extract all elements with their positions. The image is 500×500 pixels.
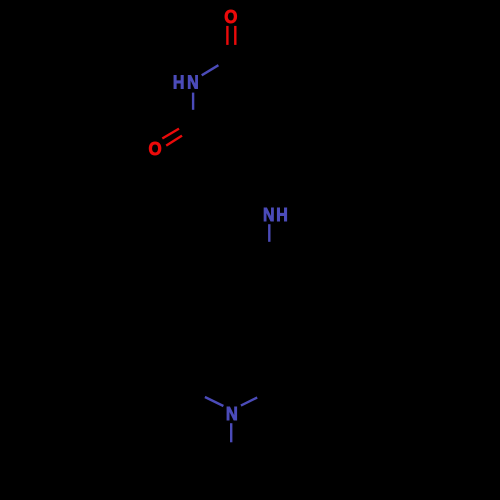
bond NH-CH2 (blue half) [268,224,270,242]
oxygen O (left carbonyl) label [149,138,162,159]
bond N-C ring up-right (blue half) [241,398,257,406]
secondary amine NH label [263,204,275,226]
svg-text:H: H [276,204,288,226]
svg-text:N: N [226,403,238,424]
double bond C2=O (red halves, two vertical lines) [226,26,228,45]
bond N1-C2 (blue half) [202,65,219,75]
svg-text:O: O [149,138,162,159]
svg-text:O: O [224,6,237,27]
svg-text:H: H [173,71,185,93]
piperidine nitrogen N label (bottom) [226,403,238,424]
bond N-CH3 down (blue half) [230,423,232,442]
bond N1-C6 (blue half) [192,93,194,110]
bond N-C ring up-left (blue half) [205,397,224,406]
ring nitrogen N1 label HN [173,71,185,93]
svg-text:N: N [263,204,275,226]
svg-text:N: N [187,71,199,93]
oxygen O (top carbonyl) label [224,6,237,27]
double bond C6=O (red halves, two diagonal lines) [162,129,179,139]
